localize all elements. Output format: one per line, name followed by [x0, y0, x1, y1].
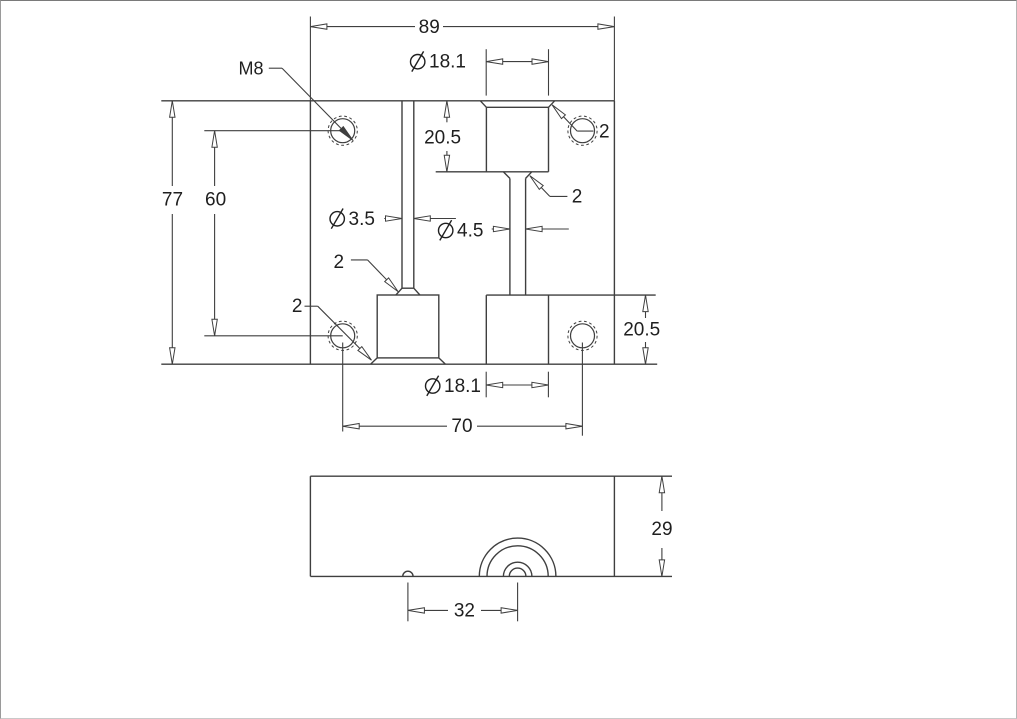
- side view: right edge: [613, 476, 615, 576]
- dim 20.5 right: dimension line with arrows: [645, 295, 647, 318]
- right slot right wall: [525, 178, 527, 295]
- svg-text:60: 60: [205, 190, 226, 211]
- svg-text:2: 2: [292, 296, 303, 317]
- left slot collar chamfer right: [414, 288, 420, 295]
- dim text Ø18.1 top: [411, 51, 466, 72]
- right pocket top chamfer right: [549, 101, 555, 108]
- right slot collar chamfer left: [503, 172, 510, 179]
- leader 2 collar left feature: [351, 259, 368, 261]
- M8 tapped hole bottom-right: [571, 324, 595, 348]
- dim 29: dimension line with arrows: [661, 476, 663, 511]
- right bottom pocket right wall: [548, 295, 550, 364]
- left slot: right wall: [413, 101, 415, 288]
- dim text Ø4.5: [439, 220, 484, 241]
- right bottom pocket top line with right extension for 20.5 dim: [486, 294, 655, 296]
- dim Ø4.5: arrows and tails: [492, 228, 510, 230]
- dim Ø18.1 top: dimension line: [486, 61, 548, 63]
- svg-text:M8: M8: [238, 59, 263, 79]
- dim Ø3.5: arrows and tails: [384, 218, 402, 220]
- svg-text:2: 2: [599, 121, 610, 142]
- right bottom pocket left wall: [485, 295, 487, 364]
- side view: left edge: [309, 476, 311, 576]
- plate top view: top edge (with left extension for 77 dim): [161, 100, 614, 102]
- svg-text:32: 32: [454, 600, 475, 621]
- svg-text:20.5: 20.5: [424, 128, 461, 149]
- right pocket left wall: [485, 107, 487, 172]
- dim text Ø18.1 bottom: [426, 376, 481, 397]
- label M8 leader: [269, 67, 282, 69]
- right pocket chamfer bottom line: [486, 106, 548, 108]
- right pocket bottom line with left extension for 20.5 dim: [436, 171, 549, 173]
- left slot: bottom line: [402, 287, 414, 289]
- dim 20.5 top: dimension line with arrows: [446, 101, 448, 123]
- left pocket foot chamfer right: [439, 358, 446, 364]
- right slot collar chamfer right: [526, 172, 532, 179]
- dim 77: dimension line with arrows: [171, 101, 173, 186]
- dim Ø18.1 bottom: extension lines: [485, 372, 487, 398]
- plate top view: bottom edge (with left/right extensions): [161, 363, 657, 365]
- dim 60: extension lines: [204, 130, 342, 132]
- M8 tapped hole bottom-left: [331, 324, 355, 348]
- left slot: left wall: [401, 101, 403, 288]
- svg-text:70: 70: [451, 416, 472, 437]
- side view: boss arc Ø4.5: [509, 568, 526, 576]
- left slot collar chamfer left: [396, 288, 402, 295]
- leader 2 foot chamfer bottom-left: [305, 305, 318, 307]
- dim Ø18.1 bottom: dimension line: [486, 384, 548, 386]
- side view: boss arc Ø18.1: [487, 546, 548, 577]
- side view: top edge with right extension for 29 dim: [310, 475, 672, 477]
- svg-text:89: 89: [419, 17, 440, 38]
- dim 70: dimension line with arrows: [343, 425, 447, 427]
- dim 32: extension lines: [407, 583, 409, 622]
- dim 70: extension lines: [342, 343, 344, 432]
- M8 tapped hole top-right: [571, 119, 595, 143]
- right pocket top chamfer left: [480, 101, 486, 108]
- side view: bottom edge with right extension: [310, 575, 672, 577]
- dim text Ø3.5: [330, 209, 375, 230]
- M8 tapped hole top-left: [331, 119, 355, 143]
- svg-text:2: 2: [334, 252, 345, 273]
- svg-text:18.1: 18.1: [429, 52, 466, 73]
- left pocket foot chamfer left: [371, 358, 378, 364]
- leader 2 collar mid-right: [533, 179, 550, 197]
- side view: small slot semicircle (Ø3.5 slot): [403, 571, 413, 576]
- side view: boss arc outer (chamfer): [479, 538, 556, 576]
- leader 2 chamfer top-right: [555, 108, 577, 131]
- dim 89: extension lines: [309, 17, 311, 101]
- dim Ø18.1 top: extension lines: [485, 49, 487, 95]
- dim 32: dimension line with arrows: [408, 609, 448, 611]
- svg-text:2: 2: [572, 187, 583, 208]
- right pocket right wall: [548, 107, 550, 172]
- right slot left wall: [509, 178, 511, 295]
- svg-text:3.5: 3.5: [349, 209, 375, 230]
- plate top view: left edge: [309, 101, 311, 364]
- left pocket rectangle: [377, 295, 439, 358]
- svg-text:20.5: 20.5: [623, 320, 660, 341]
- dim 60: dimension line with arrows: [214, 131, 216, 186]
- plate top view: right edge: [613, 101, 615, 364]
- svg-text:4.5: 4.5: [457, 221, 483, 242]
- svg-text:18.1: 18.1: [444, 376, 481, 397]
- svg-text:29: 29: [651, 519, 672, 540]
- dim 89: dimension line: [310, 26, 415, 28]
- svg-text:77: 77: [162, 190, 183, 211]
- side view: boss arc slot chamfer: [503, 562, 532, 576]
